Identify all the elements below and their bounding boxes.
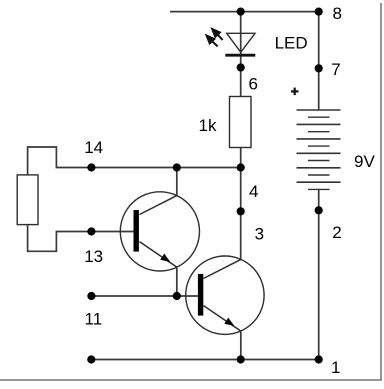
wire resistor bottom to node 14 rail <box>240 148 242 168</box>
wire Q1 emitter vertical <box>176 267 178 296</box>
resistor 1k <box>199 97 252 148</box>
node 2 <box>315 206 323 214</box>
svg-text:11: 11 <box>85 309 103 328</box>
junction dot bottom rail left <box>87 355 95 363</box>
left probe / sensor element (unlabeled rectangle) <box>17 175 38 225</box>
node 7 <box>315 64 323 72</box>
wire node 14 horizontal with left zigzag to probe top <box>28 147 241 175</box>
wire center vertical (nodes 4 and 3) <box>240 168 242 260</box>
svg-text:4: 4 <box>249 182 258 201</box>
svg-text:3: 3 <box>255 224 264 243</box>
wire LED anode from top rail <box>240 12 242 55</box>
wire LED cathode to resistor <box>240 56 242 97</box>
junction dot Q1 emitter / Q2 base <box>173 292 181 300</box>
node 1 <box>315 355 323 363</box>
wire bottom rail <box>91 359 318 361</box>
svg-text:14: 14 <box>84 138 103 157</box>
wire Q2 emitter vertical <box>240 331 242 360</box>
svg-text:6: 6 <box>249 75 258 94</box>
svg-text:2: 2 <box>332 223 341 242</box>
junction dot Q2 emitter on bottom rail <box>237 355 245 363</box>
svg-text:13: 13 <box>84 247 103 266</box>
junction dot resistor bottom on node 14 rail <box>237 163 245 171</box>
battery 9V <box>297 110 341 189</box>
node 13 <box>87 227 95 235</box>
transistor Q2 <box>186 256 264 334</box>
node 14 <box>87 163 95 171</box>
wire node 11 horizontal to Q2 base <box>91 295 198 297</box>
wire right rail lower (battery - to bottom rail) <box>318 189 320 359</box>
wire Q1 collector vertical <box>176 168 178 196</box>
node 8 <box>315 8 323 16</box>
svg-text:8: 8 <box>333 4 342 23</box>
node 4 <box>237 207 245 215</box>
svg-text:1k: 1k <box>199 116 217 135</box>
svg-text:1: 1 <box>331 358 340 377</box>
wire top supply rail <box>170 11 319 13</box>
node 11 <box>87 292 95 300</box>
wire node 13 horizontal with left zigzag to probe bottom <box>28 225 134 252</box>
svg-text:7: 7 <box>331 60 340 79</box>
junction dot top rail / LED <box>237 8 245 16</box>
svg-text:LED: LED <box>275 33 308 52</box>
transistor Q1 <box>120 192 199 271</box>
junction dot Q1 collector on node 14 rail <box>173 163 181 171</box>
battery plus sign <box>291 88 299 96</box>
svg-text:9V: 9V <box>354 152 375 171</box>
node 6 junction dot LED/resistor <box>237 63 245 71</box>
wire right rail upper (node 8 to battery +) <box>318 12 320 110</box>
LED D1 <box>207 29 308 55</box>
